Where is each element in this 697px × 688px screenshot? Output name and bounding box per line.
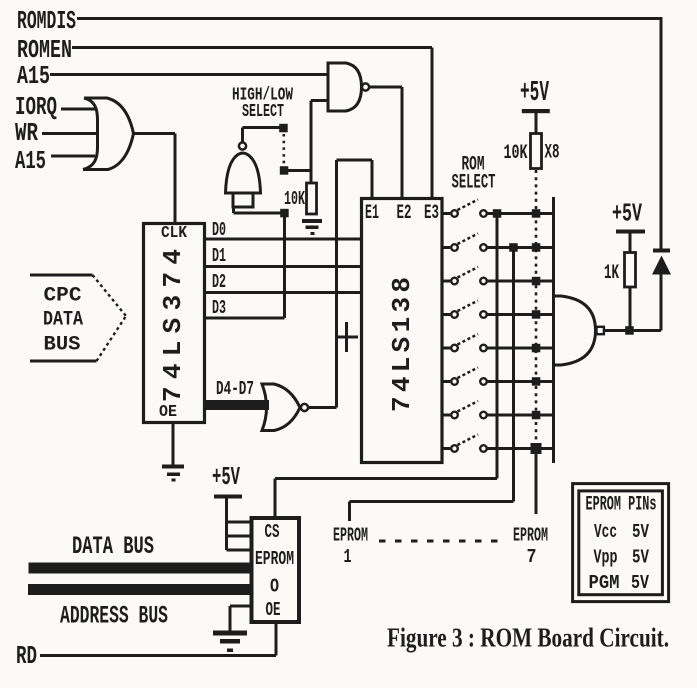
wire RD to OE pin bbox=[40, 624, 276, 656]
junction resistor rail row 7 bbox=[532, 411, 541, 420]
ic U2 74LS374 box bbox=[144, 224, 205, 423]
wire dotted resistor rail bbox=[535, 170, 538, 447]
svg-text:PGM: PGM bbox=[589, 572, 620, 594]
switch SW2 bbox=[443, 246, 450, 249]
switch SW1 bbox=[443, 212, 450, 215]
wire +5V stubs bbox=[227, 499, 251, 551]
svg-text:+5V: +5V bbox=[612, 199, 642, 229]
wire D3 bbox=[206, 317, 285, 320]
wire row 4 bbox=[488, 313, 554, 316]
svg-text:D3: D3 bbox=[212, 297, 226, 319]
svg-text:5V: 5V bbox=[631, 572, 649, 594]
svg-text:+5V: +5V bbox=[212, 462, 240, 492]
svg-text:E2: E2 bbox=[397, 202, 412, 225]
wire D2 bbox=[206, 291, 361, 294]
op nand G3 bubble bbox=[597, 327, 604, 334]
svg-text:DATA: DATA bbox=[43, 309, 83, 332]
svg-text:ADDRESS BUS: ADDRESS BUS bbox=[60, 602, 168, 631]
wire thick address bus bbox=[28, 584, 250, 595]
wire G2 output to E1 bbox=[309, 160, 373, 408]
junction resistor rail row 3 bbox=[532, 277, 541, 286]
svg-text:Vpp: Vpp bbox=[594, 547, 618, 569]
wire rail to EPROM 7 bbox=[535, 450, 538, 514]
svg-text:ROMDIS: ROMDIS bbox=[17, 6, 76, 36]
junction select bottom bbox=[280, 166, 289, 175]
wire junction to resistor and nand bbox=[284, 171, 311, 184]
svg-text:D1: D1 bbox=[212, 245, 226, 267]
wire IORQ input bbox=[61, 108, 95, 111]
svg-text:DATA BUS: DATA BUS bbox=[72, 532, 154, 561]
op nor-gate G2 bubble bbox=[301, 404, 308, 411]
svg-text:1: 1 bbox=[344, 546, 352, 568]
svg-text:OE: OE bbox=[159, 403, 177, 422]
svg-text:E1: E1 bbox=[365, 202, 379, 225]
resistor R3 1K body bbox=[625, 253, 636, 288]
wire eprom dashes bbox=[379, 540, 507, 543]
svg-text:EPROM PINs: EPROM PINs bbox=[586, 494, 657, 517]
wire ROMDIS horizontal bbox=[77, 17, 661, 20]
node crossing mark bbox=[338, 322, 359, 352]
svg-text:CPC: CPC bbox=[44, 285, 82, 308]
junction 1K output bbox=[625, 326, 634, 335]
wire rail to EPROM 1 bbox=[350, 244, 514, 522]
op nand U1 body bbox=[328, 63, 362, 111]
svg-text:BUS: BUS bbox=[44, 334, 81, 357]
ground below EPROM bbox=[213, 631, 247, 636]
svg-text:O: O bbox=[270, 576, 279, 598]
svg-text:OE: OE bbox=[266, 599, 281, 621]
wire U1 second input bbox=[311, 101, 328, 171]
ic U3 74LS138 box bbox=[362, 199, 443, 463]
svg-text:A15: A15 bbox=[15, 146, 46, 176]
wire diode to output bbox=[660, 275, 663, 331]
svg-text:1K: 1K bbox=[604, 262, 619, 285]
svg-text:5V: 5V bbox=[632, 521, 649, 543]
svg-text:EPROM: EPROM bbox=[255, 548, 294, 570]
svg-text:10K: 10K bbox=[284, 188, 305, 210]
svg-text:D4-D7: D4-D7 bbox=[216, 378, 254, 400]
switch SW5 bbox=[443, 347, 450, 350]
wire thick data bus bbox=[29, 563, 251, 574]
ground below R1 bbox=[302, 219, 322, 223]
junction rail A row1 bbox=[493, 209, 502, 218]
wire dotted select link bbox=[282, 134, 285, 165]
svg-text:SELECT: SELECT bbox=[242, 102, 284, 122]
ground below U2 bbox=[162, 465, 184, 469]
svg-text:74LS138: 74LS138 bbox=[387, 277, 417, 412]
resistor R2 10K body bbox=[531, 134, 542, 169]
op nor-gate G2 body bbox=[262, 384, 300, 431]
svg-text:Figure 3 : ROM Board Circuit.: Figure 3 : ROM Board Circuit. bbox=[387, 623, 669, 653]
op inverter Q1 bubble bbox=[239, 142, 246, 149]
wire row 5 bbox=[488, 347, 554, 350]
svg-text:EPROM: EPROM bbox=[333, 525, 368, 547]
svg-text:Vcc: Vcc bbox=[594, 521, 617, 543]
wire bus arrow bottom bbox=[30, 360, 97, 363]
wire OE to ground bbox=[172, 424, 175, 465]
wire row 2 bbox=[488, 246, 554, 249]
svg-text:RD: RD bbox=[16, 641, 37, 671]
wire ROMDIS right vertical to diode bbox=[660, 17, 663, 249]
table EPROM PINs outer box bbox=[573, 484, 669, 602]
junction inverter output bbox=[280, 209, 289, 218]
wire WR input bbox=[42, 132, 99, 135]
wire G1 output to CLK bbox=[134, 134, 176, 223]
wire row 7 bbox=[488, 414, 554, 417]
ic U4 EPROM box bbox=[252, 518, 300, 622]
wire row 6 bbox=[488, 380, 554, 383]
svg-text:X8: X8 bbox=[545, 142, 560, 165]
wire +5V to R3 bbox=[629, 234, 632, 253]
junction rail B row2 bbox=[509, 243, 518, 252]
op or-gate G1 body bbox=[83, 98, 134, 170]
wire rail to EPROM CS bbox=[275, 210, 497, 518]
switch SW3 bbox=[443, 280, 450, 283]
resistor R1 10K body bbox=[307, 183, 317, 214]
wire nand input rail bbox=[552, 197, 555, 463]
wire A15 gate input bbox=[51, 155, 95, 158]
svg-text:A15: A15 bbox=[17, 61, 50, 91]
diode D1 bbox=[653, 249, 670, 253]
svg-text:WR: WR bbox=[15, 118, 38, 148]
svg-text:SELECT: SELECT bbox=[452, 172, 496, 195]
junction resistor rail row 6 bbox=[532, 377, 541, 386]
wire ROMEN to E3 bbox=[72, 48, 432, 199]
wire inverter to junction bbox=[234, 207, 285, 213]
wire G3 output bbox=[605, 329, 662, 332]
junction resistor rail row 4 bbox=[532, 310, 541, 319]
wire bus arrow chevron bbox=[93, 275, 127, 316]
wire R3 to output bbox=[629, 287, 632, 331]
junction resistor rail row 2 bbox=[532, 243, 541, 252]
switch SW6 bbox=[443, 380, 450, 383]
junction resistor rail row 5 bbox=[532, 344, 541, 353]
wire OE to ground bbox=[230, 606, 251, 631]
op nand U1 bubble bbox=[362, 83, 369, 90]
switch SW8 bbox=[443, 447, 450, 450]
wire D3 feedback vertical bbox=[283, 213, 286, 318]
wire select top bbox=[243, 128, 284, 143]
wire row 1 bbox=[488, 212, 554, 215]
wire +5V to R2 bbox=[535, 113, 538, 134]
svg-text:10K: 10K bbox=[504, 142, 528, 165]
wire bus arrow top bbox=[30, 274, 93, 277]
op nand G3 body bbox=[554, 296, 596, 365]
svg-text:5V: 5V bbox=[632, 547, 649, 569]
svg-text:+5V: +5V bbox=[520, 76, 549, 109]
svg-text:7: 7 bbox=[527, 546, 537, 568]
wire row 3 bbox=[488, 280, 554, 283]
svg-text:CLK: CLK bbox=[161, 224, 188, 243]
junction resistor rail row 8 bbox=[531, 443, 542, 454]
op inverter Q1 pedestal bbox=[233, 193, 253, 207]
wire U1 output to E2 bbox=[370, 87, 403, 198]
switch SW4 bbox=[443, 313, 450, 316]
wire D0 bbox=[206, 238, 361, 241]
junction select top bbox=[279, 124, 288, 133]
svg-text:E3: E3 bbox=[424, 202, 439, 225]
svg-text:EPROM: EPROM bbox=[513, 525, 548, 547]
op inverter Q1 dome body bbox=[226, 153, 261, 193]
wire D1 bbox=[206, 265, 361, 268]
wire thick D4-D7 bus bbox=[206, 400, 269, 410]
junction resistor rail row 1 bbox=[532, 209, 541, 218]
switch SW7 bbox=[443, 414, 450, 417]
wire row 8 bbox=[488, 447, 554, 450]
wire A15 to NAND input bbox=[50, 73, 329, 76]
svg-text:CS: CS bbox=[265, 521, 280, 543]
svg-text:74LS374: 74LS374 bbox=[158, 249, 188, 402]
svg-text:D2: D2 bbox=[212, 271, 226, 293]
